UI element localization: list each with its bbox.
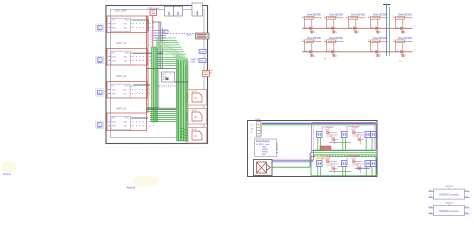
svg-text:UART_A3: UART_A3 <box>116 108 127 111</box>
svg-text:UART_A2: UART_A2 <box>116 75 127 78</box>
svg-text:SWD: SWD <box>200 52 206 54</box>
svg-text:10k: 10k <box>209 73 212 75</box>
svg-text:5V: 5V <box>251 125 254 127</box>
svg-text:GND PWR: GND PWR <box>316 158 325 160</box>
svg-text:PowerSupply: PowerSupply <box>256 140 270 143</box>
svg-text:rev: rev <box>399 61 402 63</box>
svg-text:JTAG: JTAG <box>186 34 192 37</box>
svg-text:SWC: SWC <box>200 61 206 63</box>
svg-text:SI: SI <box>251 132 253 134</box>
svg-text:ENC: ENC <box>262 154 267 156</box>
svg-text:Sump: Sump <box>3 172 11 176</box>
svg-text:GN: GN <box>251 129 254 131</box>
svg-text:F1: F1 <box>324 59 327 61</box>
svg-text:Atal M: Atal M <box>127 186 136 190</box>
svg-text:UART 0: UART 0 <box>191 58 199 61</box>
svg-text:USB_UART: USB_UART <box>115 9 128 12</box>
svg-text:UART_A1: UART_A1 <box>116 42 127 45</box>
svg-text:CON1: CON1 <box>255 119 261 121</box>
svg-text:DBG: DBG <box>191 62 196 64</box>
